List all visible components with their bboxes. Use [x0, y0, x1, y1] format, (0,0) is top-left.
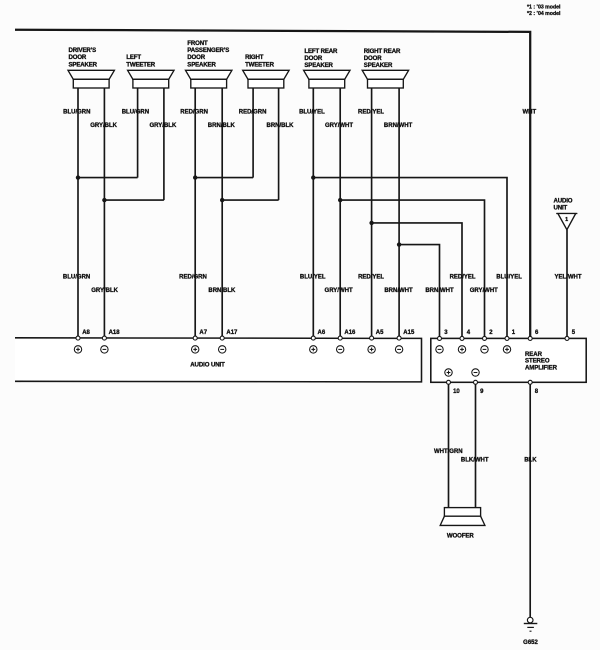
svg-text:GRY/WHT: GRY/WHT	[325, 123, 353, 129]
svg-text:1: 1	[512, 330, 516, 336]
label REAR STEREO AMPLIFIER	[525, 351, 558, 372]
svg-text:RED/GRN: RED/GRN	[179, 275, 207, 281]
junction dot A7 branch	[193, 175, 197, 179]
wire BLU/GRN left tweeter + branch	[78, 88, 149, 178]
svg-text:DOOR: DOOR	[69, 54, 87, 61]
svg-text:UNIT: UNIT	[554, 204, 568, 211]
wire BLK/WHT amplifier pin 9 to woofer	[461, 384, 489, 507]
svg-text:SPEAKER: SPEAKER	[364, 62, 393, 69]
svg-text:BLU/GRN: BLU/GRN	[122, 110, 149, 116]
svg-text:AUDIO UNIT: AUDIO UNIT	[190, 361, 225, 368]
wire GRY/WHT left rear door speaker - to A16	[325, 88, 354, 338]
wire RED/YEL right rear door speaker + to A5	[358, 88, 384, 338]
rear stereo amplifier box	[431, 338, 586, 382]
svg-text:BLU/YEL: BLU/YEL	[300, 275, 326, 281]
svg-text:GRY/BLK: GRY/BLK	[150, 123, 177, 129]
svg-text:G652: G652	[523, 640, 538, 646]
svg-text:4: 4	[467, 330, 471, 336]
audio unit antenna connector 1	[554, 197, 578, 229]
svg-text:*1 : ’03 model: *1 : ’03 model	[527, 4, 561, 10]
wire RED/GRN right tweeter + branch	[195, 88, 266, 178]
audio unit pin A6	[310, 330, 326, 353]
svg-text:6: 6	[535, 330, 539, 336]
svg-text:BLU/YEL: BLU/YEL	[496, 275, 522, 281]
svg-text:LEFT: LEFT	[126, 54, 141, 61]
svg-text:RED/YEL: RED/YEL	[358, 110, 384, 116]
svg-text:RED/YEL: RED/YEL	[358, 275, 384, 281]
svg-text:*2 : ’04 model: *2 : ’04 model	[527, 11, 561, 17]
svg-text:DRIVER’S: DRIVER’S	[69, 47, 97, 54]
wire BLU/YEL left rear door speaker + to A6	[299, 88, 326, 338]
svg-text:3: 3	[444, 330, 448, 336]
amplifier pin 1	[503, 330, 516, 353]
svg-text:AUDIO: AUDIO	[554, 197, 573, 204]
svg-text:5: 5	[572, 330, 576, 336]
svg-text:2: 2	[489, 330, 493, 336]
wire WHT/GRN amplifier pin 10 to woofer	[434, 384, 463, 507]
svg-text:DOOR: DOOR	[304, 55, 322, 62]
svg-text:9: 9	[480, 389, 484, 395]
svg-text:AMPLIFIER: AMPLIFIER	[525, 364, 558, 371]
svg-text:LEFT REAR: LEFT REAR	[304, 48, 338, 55]
audio unit pin A7	[192, 330, 208, 353]
svg-text:RED/GRN: RED/GRN	[180, 110, 208, 116]
svg-text:FRONT: FRONT	[187, 40, 208, 47]
wire RED/YEL branch to amplifier pin 4	[372, 223, 462, 339]
svg-text:BRN/BLK: BRN/BLK	[267, 123, 295, 129]
svg-text:A6: A6	[318, 330, 326, 336]
audio unit pin A15	[395, 330, 415, 353]
junction dot A18 branch	[102, 198, 106, 202]
svg-text:WOOFER: WOOFER	[447, 532, 475, 539]
svg-text:8: 8	[535, 389, 539, 395]
svg-text:10: 10	[453, 389, 460, 395]
speaker: left tweeter	[126, 54, 174, 88]
svg-text:BRN/WHT: BRN/WHT	[384, 123, 413, 129]
amplifier pin 3	[436, 330, 449, 353]
ground G652	[523, 617, 538, 646]
amplifier pin 5	[565, 330, 576, 340]
svg-text:BLK/WHT: BLK/WHT	[461, 458, 489, 464]
svg-text:BRN/BLK: BRN/BLK	[208, 123, 236, 129]
wire BRN/WHT branch to amplifier pin 3	[399, 245, 439, 339]
audio unit connector box	[15, 338, 422, 382]
svg-text:GRY/WHT: GRY/WHT	[325, 288, 353, 294]
svg-text:A8: A8	[82, 330, 90, 336]
audio unit pin A5	[368, 330, 384, 353]
svg-text:BRN/BLK: BRN/BLK	[208, 288, 236, 294]
svg-text:RIGHT: RIGHT	[245, 54, 264, 61]
wire BRN/BLK front passenger's door speaker - to A17	[208, 88, 236, 338]
svg-text:BLK: BLK	[524, 458, 537, 464]
wire BRN/BLK right tweeter - branch	[222, 88, 294, 200]
svg-text:DOOR: DOOR	[364, 55, 382, 62]
svg-text:PASSENGER’S: PASSENGER’S	[187, 47, 229, 54]
svg-text:A17: A17	[226, 330, 238, 336]
svg-text:YEL/WHT: YEL/WHT	[555, 275, 582, 281]
svg-text:WHT: WHT	[522, 110, 536, 116]
svg-text:BLU/GRN: BLU/GRN	[63, 110, 90, 116]
svg-text:A18: A18	[109, 330, 121, 336]
svg-text:TWEETER: TWEETER	[126, 61, 155, 68]
amplifier pin 10	[445, 369, 461, 395]
junction dot pin2 branch	[338, 198, 342, 202]
wire RED/GRN front passenger's door speaker + to A7	[179, 88, 208, 338]
wire BRN/WHT right rear door speaker - to A15	[384, 88, 413, 338]
svg-text:SPEAKER: SPEAKER	[304, 62, 333, 69]
svg-text:BRN/WHT: BRN/WHT	[425, 288, 454, 294]
junction dot pin3 branch	[397, 242, 401, 246]
speaker: front passenger's door speaker	[186, 40, 232, 88]
audio unit pin A18	[101, 330, 121, 353]
wire GRY/BLK left tweeter - branch	[104, 88, 177, 200]
svg-text:DOOR: DOOR	[187, 54, 205, 61]
amplifier pin 9	[472, 369, 484, 395]
amplifier pin 4	[458, 330, 471, 353]
svg-text:A16: A16	[344, 330, 356, 336]
speaker: driver's door speaker	[68, 47, 114, 88]
wire BLU/GRN driver's door speaker + to A8	[63, 88, 91, 338]
junction dot pin1 branch	[311, 175, 315, 179]
svg-text:BLU/YEL: BLU/YEL	[299, 110, 325, 116]
wire BLU/YEL branch to amplifier pin 1	[313, 178, 507, 339]
svg-text:A7: A7	[199, 330, 207, 336]
junction dot A8 branch	[76, 175, 80, 179]
wire BLK amplifier pin 8 to ground G652	[524, 384, 537, 617]
svg-text:RED/GRN: RED/GRN	[239, 110, 267, 116]
junction dot pin4 branch	[369, 221, 373, 225]
svg-text:GRY/BLK: GRY/BLK	[90, 123, 117, 129]
amplifier pin 6	[528, 330, 539, 340]
speaker: right rear door speaker	[362, 48, 408, 88]
svg-text:RIGHT REAR: RIGHT REAR	[364, 48, 401, 55]
svg-text:BLU/GRN: BLU/GRN	[63, 275, 90, 281]
svg-text:A5: A5	[376, 330, 384, 336]
svg-text:GRY/BLK: GRY/BLK	[91, 288, 118, 294]
wire GRY/BLK driver's door speaker - to A18	[90, 88, 118, 338]
wire: WHT feed from fuse (top bus)	[15, 30, 530, 339]
audio unit pin A16	[337, 330, 357, 353]
speaker: left rear door speaker	[304, 48, 350, 88]
audio unit pin A8	[74, 330, 90, 353]
wire GRY/WHT branch to amplifier pin 2	[340, 200, 484, 338]
speaker: woofer	[440, 508, 485, 540]
svg-text:A15: A15	[403, 330, 415, 336]
svg-text:WHT/GRN: WHT/GRN	[434, 449, 463, 455]
svg-text:GRY/WHT: GRY/WHT	[470, 288, 498, 294]
svg-text:RED/YEL: RED/YEL	[450, 275, 476, 281]
wire YEL/WHT antenna to amplifier pin 5	[555, 230, 582, 339]
amplifier pin 8	[528, 380, 539, 395]
svg-text:TWEETER: TWEETER	[245, 61, 274, 68]
svg-text:BRN/WHT: BRN/WHT	[384, 288, 413, 294]
svg-text:1: 1	[565, 217, 568, 223]
junction dot A17 branch	[220, 198, 224, 202]
svg-text:SPEAKER: SPEAKER	[69, 61, 98, 68]
amplifier pin 2	[481, 330, 494, 353]
audio unit pin A17	[219, 330, 239, 353]
speaker: right tweeter	[243, 54, 289, 88]
svg-text:SPEAKER: SPEAKER	[187, 61, 216, 68]
